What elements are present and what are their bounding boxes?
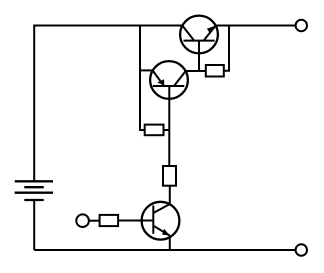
resistor R2 — [145, 125, 164, 136]
resistor R1 — [206, 65, 224, 77]
terminal input — [76, 214, 89, 227]
terminal output positive — [296, 20, 307, 31]
resistor R4 — [100, 215, 119, 226]
wire Q1 base junction horizontal — [186, 70, 206, 72]
battery B1 plate short bottom — [24, 199, 44, 201]
wire R2 to Q2 base line — [164, 129, 170, 131]
wire Q2 emitter stub — [140, 69, 153, 71]
terminal output negative — [296, 244, 307, 255]
wire top rail left segment — [34, 26, 182, 182]
wire bottom rail — [34, 249, 295, 251]
battery B1 plate long — [15, 192, 53, 194]
wire drop from top rail to R2 — [140, 26, 145, 131]
wire Q2 base down to R3 — [168, 86, 170, 166]
wire R1 right up to top rail — [224, 26, 229, 71]
resistor R3 — [163, 166, 176, 186]
wire R3 to Q3 collector — [169, 186, 171, 205]
transistor Q2 — [150, 61, 188, 99]
transistor Q3 — [142, 202, 180, 250]
wire R4 to Q3 base — [118, 220, 142, 222]
battery B1 plate short — [24, 186, 44, 188]
battery B1 plate long top — [15, 180, 53, 182]
wire top rail right segment — [216, 25, 296, 27]
wire input terminal to R4 — [89, 220, 100, 222]
wire battery negative to bottom rail — [33, 200, 35, 250]
transistor Q1 — [180, 16, 218, 71]
